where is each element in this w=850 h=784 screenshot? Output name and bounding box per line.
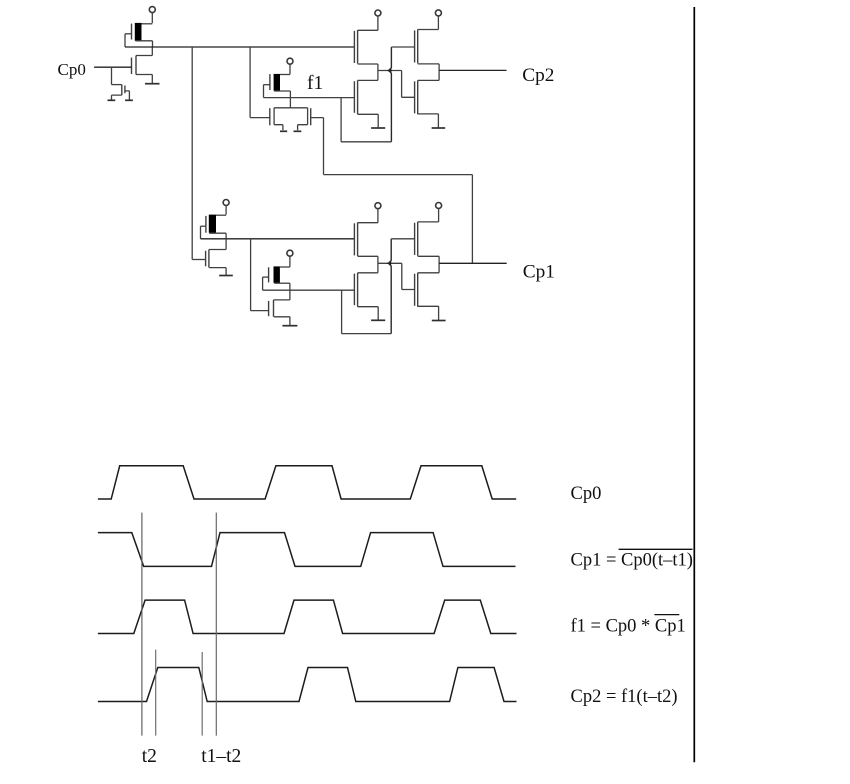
depletion load M12 channel (black bar) xyxy=(274,266,280,283)
transistor M14 drain lead xyxy=(358,222,378,224)
MOS capacitor M3 gate lead xyxy=(125,91,129,100)
wire: f1 net drop to feedback U xyxy=(340,98,342,142)
transistor M15 channel bar xyxy=(357,273,359,307)
transistor M7 gate bar xyxy=(353,81,355,113)
wire: M4 gate tie down to f1 net xyxy=(263,85,265,98)
transistor M9 source lead xyxy=(418,114,439,128)
transistor M15 gate bar xyxy=(353,274,355,306)
driver M2 drain wire xyxy=(136,47,152,56)
wire: feedback U bottom (stage C) xyxy=(342,333,392,335)
VDD terminal (stage D) xyxy=(436,203,442,209)
wire: inverter 1 output bus xyxy=(125,46,354,48)
wire: Cp2 output node xyxy=(438,64,440,81)
wire: node to stage D upper gate xyxy=(391,238,414,240)
vertical rule (figure divider) xyxy=(693,7,695,762)
driver M13 gate bar xyxy=(268,301,270,316)
depletion load M4 drain lead xyxy=(280,74,290,76)
wire: input Cp0 xyxy=(94,66,131,68)
waveform Cp2 xyxy=(98,668,517,702)
wire: M10 source down to lower bus xyxy=(225,233,227,239)
svg-text:Cp0: Cp0 xyxy=(58,60,86,79)
transistor M6 gate bar xyxy=(353,31,355,63)
transistor M7 source lead xyxy=(358,114,379,127)
transistor M6 channel bar xyxy=(357,30,359,64)
transistor M8 source lead xyxy=(418,63,439,65)
depletion load M1 drain lead xyxy=(142,23,153,25)
transistor M8 gate bar xyxy=(414,30,416,62)
VDD terminal (stage B) xyxy=(435,10,441,16)
transistor M17 gate bar xyxy=(414,274,416,306)
wire: bus drop to M5 left gate xyxy=(250,47,270,118)
wire: Cp1 output node xyxy=(438,256,440,273)
transistor M9 gate bar xyxy=(414,81,416,113)
transistor M15 source lead xyxy=(358,307,379,320)
ground (inverter 1 driver) xyxy=(145,83,160,85)
junction arrow (stage C output) xyxy=(387,261,391,266)
transistor M14 gate bar xyxy=(353,223,355,255)
depletion load M1 channel (black bar) xyxy=(135,23,142,41)
transistor M6 source lead xyxy=(358,63,378,65)
wire: M5 right gate to Cp1 net xyxy=(311,118,473,264)
ground (M5 drain) xyxy=(294,130,302,132)
overline over Cp0(t-t1) xyxy=(619,548,693,550)
wire: inverter 2 output bus xyxy=(201,238,355,240)
transistor M16 source lead xyxy=(418,255,439,257)
driver M11 gate bar xyxy=(205,251,207,266)
depletion load M4 source lead xyxy=(274,90,290,92)
driver M11 channel bar xyxy=(208,250,210,268)
wire: input drop to MOS cap M3 xyxy=(111,67,113,84)
depletion load M4 channel (black bar) xyxy=(274,74,280,91)
driver M2 gate bar xyxy=(131,58,133,75)
transistor M16 gate bar xyxy=(414,223,416,255)
depletion load M12 gate lead xyxy=(263,276,269,278)
wire: output to stage D lower gate xyxy=(402,263,415,289)
svg-text:t2: t2 xyxy=(142,746,157,767)
transistor M8 channel bar xyxy=(417,30,419,64)
ground (stage B) xyxy=(432,127,446,129)
driver M11 gate lead xyxy=(192,259,205,261)
wire: M1 gate tie down to output bus xyxy=(124,34,126,47)
VDD terminal (stage C) xyxy=(375,203,381,209)
waveform Cp1 xyxy=(98,533,516,567)
svg-text:Cp2: Cp2 xyxy=(522,65,554,86)
ground (M3 source) xyxy=(108,99,116,101)
pass transistor M5 left gate bar xyxy=(269,108,271,125)
depletion load M1 gate lead xyxy=(125,33,132,35)
VDD terminal (inverter 2) xyxy=(223,200,229,206)
transistor M14 channel bar xyxy=(357,223,359,257)
wire: output to stage B lower gate xyxy=(402,71,415,98)
ground (M5 source) xyxy=(280,130,287,132)
transistor M14 source lead xyxy=(358,255,378,257)
driver M2 source lead xyxy=(136,75,152,84)
ground (stage D) xyxy=(432,320,446,322)
time marker t1 right edge xyxy=(215,513,217,736)
svg-text:Cp0: Cp0 xyxy=(571,484,602,504)
ground (stage A) xyxy=(371,127,385,129)
driver M11 source lead xyxy=(209,268,226,275)
MOS capacitor M3 top lead xyxy=(112,84,122,86)
MOS capacitor M3 gate bar xyxy=(124,86,126,94)
time marker t2 right edge xyxy=(155,650,157,736)
wire: stage A node vertical (with jog at junction) xyxy=(389,47,392,142)
wire: M12 source down to M13 drain xyxy=(289,283,291,300)
wire: M1 source down to output bus xyxy=(152,41,154,47)
depletion load M1 source lead xyxy=(136,40,153,42)
ground (stage C) xyxy=(371,319,385,321)
pass transistor M5 source lead xyxy=(274,125,283,130)
time marker t1 left edge xyxy=(141,513,143,736)
depletion load M1 gate bar xyxy=(131,24,133,40)
depletion load M4 gate bar xyxy=(269,74,271,90)
wire: f1 net xyxy=(264,97,355,99)
wire: f2 net drop to feedback U xyxy=(341,290,343,333)
VDD terminal (inverter 1) xyxy=(149,7,155,13)
transistor M6 drain lead xyxy=(358,29,378,31)
pass transistor M5 drain lead xyxy=(298,125,308,130)
VDD terminal (f1 load) xyxy=(287,58,293,64)
wire: bus drop to inverter 2 gate xyxy=(191,47,193,260)
transistor M15 drain lead xyxy=(358,272,378,274)
pass transistor M5 channel left side xyxy=(273,108,275,125)
wire: node to stage B upper gate xyxy=(391,46,414,48)
depletion load M10 channel (black bar) xyxy=(209,215,216,233)
wire: stage C node vertical (with jog at junction) xyxy=(389,239,392,334)
wire: stage A output node xyxy=(378,64,402,80)
depletion load M4 gate lead xyxy=(264,84,270,86)
driver M13 source lead xyxy=(274,317,290,325)
driver M13 drain lead xyxy=(274,299,290,301)
wire: f2 net xyxy=(263,289,355,291)
waveform f1 xyxy=(98,600,517,633)
driver M2 channel bar xyxy=(135,56,137,75)
transistor M9 drain lead xyxy=(418,79,439,81)
wire: stage C output node xyxy=(378,256,402,273)
depletion load M10 gate bar xyxy=(205,216,207,233)
svg-text:t1–t2: t1–t2 xyxy=(201,746,241,767)
transistor M9 channel bar xyxy=(417,80,419,114)
svg-text:f1: f1 xyxy=(307,73,323,94)
time marker t1-t2 left edge xyxy=(201,652,203,736)
transistor M16 drain lead xyxy=(418,221,439,223)
wire: Cp2 output line xyxy=(439,69,506,71)
driver M11 drain wire xyxy=(209,239,226,250)
VDD terminal (M12 load) xyxy=(287,250,293,256)
wire: lower bus drop to M13 gate xyxy=(251,239,269,311)
MOS capacitor M3 channel bar xyxy=(121,85,123,96)
overline over Cp1 xyxy=(654,614,679,616)
depletion load M10 gate lead xyxy=(201,225,206,227)
transistor M7 channel bar xyxy=(357,80,359,114)
transistor M17 source lead xyxy=(418,306,439,320)
depletion load M10 source lead xyxy=(209,232,226,234)
svg-text:f1 = Cp0 * Cp1: f1 = Cp0 * Cp1 xyxy=(571,617,686,637)
transistor M7 drain lead xyxy=(358,79,378,81)
wire: Cp1 output line xyxy=(439,262,507,264)
pass transistor M5 channel (top) xyxy=(274,107,308,109)
wire: M12 gate tie down to f2 net xyxy=(262,277,264,290)
ground (inverter 2) xyxy=(219,275,233,277)
wire: M4 source down to M5 channel xyxy=(289,91,291,108)
VDD terminal (stage A) xyxy=(375,10,381,16)
depletion load M12 drain lead xyxy=(280,266,290,268)
svg-text:Cp1: Cp1 xyxy=(523,262,555,283)
MOS capacitor M3 bottom lead xyxy=(112,95,122,100)
transistor M8 drain lead xyxy=(418,29,439,31)
waveform Cp0 xyxy=(98,466,516,499)
transistor M17 drain lead xyxy=(418,272,439,274)
pass transistor M5 right gate bar xyxy=(310,108,312,125)
junction arrow (stage A output) xyxy=(387,68,391,73)
svg-text:Cp2 = f1(t–t2): Cp2 = f1(t–t2) xyxy=(571,687,678,707)
driver M13 channel bar xyxy=(273,300,275,317)
transistor M17 channel bar xyxy=(417,273,419,307)
depletion load M12 source lead xyxy=(274,282,290,284)
ground (M13) xyxy=(282,325,297,327)
wire: M10 gate tie down to lower bus xyxy=(200,226,202,239)
ground (M3 gate) xyxy=(125,99,133,101)
depletion load M10 drain lead xyxy=(216,214,226,216)
svg-text:Cp1 = Cp0(t–t1): Cp1 = Cp0(t–t1) xyxy=(571,551,693,571)
transistor M16 channel bar xyxy=(417,222,419,256)
wire: feedback U bottom (stage A) xyxy=(341,141,391,143)
depletion load M12 gate bar xyxy=(268,267,270,282)
pass transistor M5 channel right side xyxy=(307,108,309,125)
